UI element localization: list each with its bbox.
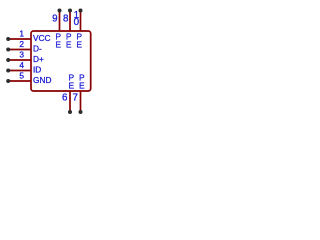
svg-text:3: 3: [19, 50, 24, 60]
svg-text:0: 0: [74, 17, 80, 28]
svg-text:E: E: [76, 40, 82, 50]
svg-text:E: E: [68, 81, 74, 91]
svg-text:5: 5: [19, 71, 24, 81]
svg-text:6: 6: [62, 93, 68, 104]
svg-text:8: 8: [63, 13, 69, 24]
svg-text:1: 1: [19, 29, 24, 39]
svg-text:7: 7: [73, 93, 78, 104]
svg-text:4: 4: [19, 60, 24, 70]
svg-text:E: E: [79, 81, 85, 91]
svg-text:E: E: [66, 40, 72, 50]
svg-text:VCC: VCC: [33, 33, 51, 43]
svg-text:D+: D+: [33, 54, 44, 64]
svg-text:2: 2: [19, 39, 24, 49]
svg-text:E: E: [55, 40, 61, 50]
svg-text:9: 9: [52, 13, 57, 24]
svg-text:ID: ID: [33, 65, 41, 75]
svg-text:D-: D-: [33, 44, 42, 54]
svg-text:GND: GND: [33, 75, 51, 85]
